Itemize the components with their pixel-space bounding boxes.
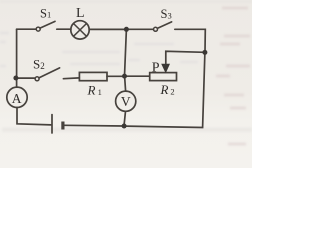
svg-text:S2: S2 <box>33 57 45 72</box>
node dot R1 / middle vertical <box>122 74 127 79</box>
voltmeter V <box>116 91 136 111</box>
svg-text:V: V <box>121 94 131 109</box>
battery long plate <box>51 115 53 133</box>
wire node to S3 <box>128 28 153 30</box>
svg-text:S1: S1 <box>40 6 51 20</box>
faint bleed-through band at very top <box>0 0 252 3</box>
wire node to R2 <box>126 75 149 77</box>
node dot V bottom / bottom wire <box>122 124 127 129</box>
wire lamp to node <box>89 28 124 30</box>
switch S1 <box>36 21 55 31</box>
wire top-left segment <box>17 28 37 30</box>
wire S3 to top-right corner and down <box>175 29 206 52</box>
wire S2 to R1 <box>63 77 79 80</box>
svg-text:2: 2 <box>170 87 174 97</box>
svg-text:A: A <box>12 91 22 106</box>
wire V stem lower <box>124 111 125 124</box>
wire middle vertical upper <box>125 29 127 76</box>
wire battery to V node <box>65 124 123 127</box>
wire R1 to node <box>107 75 123 77</box>
faint bleed-through band below circuit <box>2 128 252 133</box>
switch S2 <box>35 68 60 81</box>
node dot at lamp/S3/middle junction <box>124 27 129 32</box>
rheostat R2 <box>150 73 177 81</box>
lamp L <box>71 21 89 39</box>
svg-text:1: 1 <box>98 87 102 97</box>
svg-text:P: P <box>152 61 160 76</box>
faint bleed-through text inside <box>0 33 198 66</box>
wiper P shaft and wire to right vertical <box>166 51 205 63</box>
resistor R1 <box>79 72 107 80</box>
faint bleed-through text right column <box>216 8 250 144</box>
ammeter A <box>7 87 27 107</box>
wire left vertical <box>16 29 18 87</box>
svg-text:R: R <box>160 82 169 97</box>
wire V stem upper <box>125 76 126 91</box>
wire S1 to lamp <box>57 28 71 30</box>
switch S3 <box>154 22 172 31</box>
svg-text:S3: S3 <box>161 7 172 21</box>
svg-text:R: R <box>87 83 96 98</box>
wire A to bottom-left corner to battery <box>17 108 51 125</box>
wiper P arrowhead <box>161 64 170 74</box>
wire right vertical lower and bottom-right segment <box>126 52 205 127</box>
battery short plate <box>61 122 64 130</box>
node dot left vertical / S2 branch <box>13 76 18 81</box>
node dot right vertical / wiper wire <box>202 50 207 55</box>
svg-text:L: L <box>76 6 85 21</box>
wire S2 branch from left vertical <box>18 77 36 79</box>
